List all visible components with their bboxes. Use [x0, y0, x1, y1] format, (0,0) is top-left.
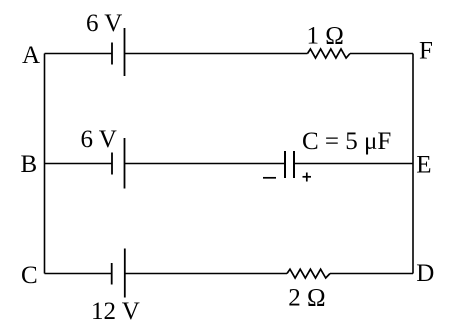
svg-text:F: F	[419, 38, 433, 65]
svg-text:1 Ω: 1 Ω	[307, 23, 344, 50]
svg-text:6 V: 6 V	[81, 126, 117, 153]
svg-text:12 V: 12 V	[91, 298, 140, 325]
svg-text:A: A	[22, 42, 40, 69]
svg-text:6 V: 6 V	[86, 10, 122, 37]
svg-text:C = 5 μF: C = 5 μF	[302, 128, 391, 155]
svg-text:C: C	[21, 262, 38, 289]
svg-text:B: B	[21, 151, 38, 178]
svg-text:2 Ω: 2 Ω	[288, 284, 325, 311]
svg-text:E: E	[416, 151, 431, 178]
svg-text:D: D	[416, 260, 434, 287]
